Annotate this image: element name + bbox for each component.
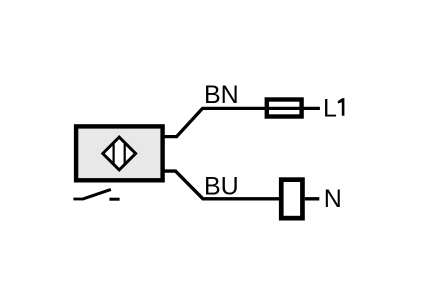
- switch contact (NO, output state): [73, 189, 119, 199]
- label N: [324, 185, 342, 213]
- svg-text:L: L: [323, 95, 337, 123]
- wire BN (sensor to fuse): [163, 108, 320, 136]
- svg-text:N: N: [324, 185, 342, 213]
- svg-text:BU: BU: [204, 173, 239, 201]
- wire BU (sensor to load): [163, 171, 281, 199]
- label L1: [323, 95, 344, 123]
- sensor symbol: inductive proximity diamond: [103, 137, 136, 170]
- svg-text:BN: BN: [204, 81, 239, 109]
- wire to N terminal: [305, 197, 320, 200]
- sensor S1 body: [76, 126, 163, 180]
- label BN: [204, 81, 239, 109]
- fuse F1: [267, 100, 302, 117]
- load (relay/lamp) at N: [281, 180, 302, 219]
- label BU: [204, 173, 239, 201]
